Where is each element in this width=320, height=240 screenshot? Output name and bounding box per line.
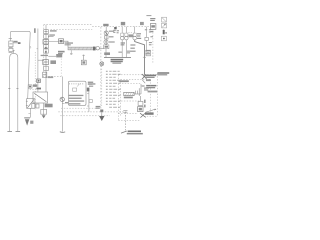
connector above lamp L1: [121, 33, 124, 36]
dashed bottom edge of center module row2: [60, 115, 110, 117]
label under resistor R1: [124, 97, 133, 99]
switch S2 on center chain: [43, 60, 49, 65]
legend icon 3 (dark glyph): [163, 30, 167, 35]
check mark inside module top: [77, 84, 80, 87]
label for ground G101: [30, 121, 33, 124]
diode D1 on left branch: [37, 79, 41, 83]
splice ring C7 on ground run: [60, 97, 64, 101]
bus bar (hatched): [68, 47, 96, 51]
label under lamp L3: [149, 42, 152, 45]
dashed partition near bottom right: [118, 113, 138, 115]
lamp L3 chain wire: [146, 27, 148, 38]
wire fusible link B1 to bus bar: [64, 41, 69, 47]
label for circuit breaker CB1: [109, 31, 114, 32]
lamp L2 chain wire: [134, 27, 136, 33]
corner label box of dashed module: [150, 24, 156, 30]
dashed box A inner top edge: [51, 28, 93, 30]
right module outer dashed top: [118, 74, 157, 76]
dashed box A left edge: [43, 25, 45, 77]
dashed line under resistor: [118, 100, 140, 102]
legend icon 2 (box with diagonal and dot): [162, 23, 167, 28]
label glyph at left branch top: [34, 28, 36, 33]
connector C4 on center chain: [44, 66, 49, 70]
ground wire dashed right: [124, 112, 126, 130]
tap below bus bar: [70, 50, 73, 54]
splice ring S202 on feed chain: [104, 40, 108, 44]
label inside partition rows: [119, 80, 129, 82]
label block inside right module: [144, 88, 149, 91]
label above dashed edge right lamp: [140, 22, 144, 25]
wire bar cap to connector block: [99, 47, 103, 49]
relay K1 on center chain: [43, 40, 49, 44]
terminal feet of loop: [7, 130, 20, 132]
antenna stub component: [81, 55, 86, 65]
junction X marks at heavy wire end: [142, 74, 147, 83]
label above bus bar: [65, 42, 73, 45]
connector ticks on ground wire: [123, 111, 127, 113]
right module inner dashed top: [121, 78, 151, 80]
fuse F2 on center chain: [44, 30, 49, 34]
dashed wire below connector ring: [101, 66, 103, 106]
label above connector ring C200: [103, 24, 108, 26]
connector C100 below fuse: [9, 48, 13, 53]
legend label 4: [150, 36, 153, 37]
wire below lamp L1: [121, 40, 123, 57]
fusible link box B1: [59, 39, 64, 44]
connector C5 on center chain: [43, 72, 47, 77]
dashed module right edge: [156, 73, 158, 116]
dashed box A bottom edge: [43, 75, 62, 77]
small box inside module: [73, 88, 77, 91]
wire center chain: [45, 25, 47, 92]
right module inner dashed right edge: [150, 79, 152, 113]
connector C402 on right wire: [138, 107, 143, 112]
connector tag on dashed top edge: [114, 27, 117, 29]
ground G101: [24, 118, 30, 126]
label rows left of lamp L3 wire: [145, 29, 152, 32]
dashed enclosure around switch S1: [30, 52, 36, 110]
relay box on branch wire: [28, 85, 32, 88]
label under connector block: [104, 52, 110, 55]
dashed box top edge right half: [92, 26, 150, 28]
tiny labels at left of right module: [144, 100, 146, 108]
ground run foot: [60, 131, 65, 134]
connector marks above resistor lead: [135, 88, 139, 96]
nub on branch wire: [29, 46, 32, 48]
dotted header inside module box: [69, 83, 84, 85]
label block right lower: [146, 85, 156, 88]
ground arrow below connector C6: [42, 115, 46, 118]
labels above terminal bar right: [118, 51, 130, 54]
right module inner dashed left edge: [120, 79, 122, 116]
junction blob S300: [100, 110, 103, 113]
label above dashed edge left lamp: [121, 22, 125, 25]
dashed partition bottom right lower: [118, 119, 140, 121]
dashed box right edge upper-right: [152, 29, 154, 63]
wire top-left hat from fuse feed to switch branch: [10, 31, 30, 98]
label arrow for fuse F1: [13, 41, 21, 44]
wire relay K1 to fusible link box: [49, 41, 59, 43]
label row right bottom: [148, 91, 158, 93]
wire below switch S3: [43, 103, 45, 115]
tick on ground run: [62, 103, 64, 105]
label arrow right of switch S3: [45, 104, 53, 108]
connector above lamp L2: [133, 33, 136, 36]
small label right: [146, 79, 151, 81]
X marks lower right: [140, 113, 146, 118]
label block right mid: [145, 75, 156, 78]
right module outer dashed left edge: [117, 75, 119, 121]
arrow into right module: [145, 109, 156, 115]
tick on heavy wire: [143, 56, 146, 58]
right module innermost dashed top: [122, 82, 140, 84]
connector pair below switch S3: [32, 104, 39, 109]
legend label 3: [150, 31, 153, 32]
wire lamp L3 chain down: [146, 40, 148, 50]
splice ring at bar end: [96, 47, 99, 50]
wire below lamp L1b: [125, 40, 127, 57]
connector box on ground branch x89: [89, 100, 92, 103]
wire left solid branch: [37, 29, 44, 92]
junction bar on left branch: [36, 88, 41, 90]
legend icon 1 (box with diagonal): [162, 17, 167, 22]
terminal bar under lamp L1: [104, 57, 131, 59]
connector on lamp L3 chain: [145, 37, 148, 40]
dashed box A top edge: [44, 24, 93, 26]
dashed segment to right module: [145, 73, 158, 75]
label left of diode D1: [33, 84, 37, 86]
label rows beside heavy wire: [130, 44, 150, 54]
connector C6 below switch S3: [41, 109, 47, 114]
wire connector block down: [105, 49, 107, 58]
switch box S3 with diagonal: [33, 92, 48, 103]
label right of dashed vertical top: [157, 72, 169, 75]
wire to ground triangle: [101, 112, 103, 116]
circuit breaker CB1 on feed chain: [104, 31, 108, 35]
connector ring C200: [100, 62, 104, 66]
pin row list of connector: [106, 71, 121, 108]
label for switch S2: [50, 60, 56, 64]
text rows inside module box: [69, 95, 84, 105]
resistor R1: [124, 92, 134, 95]
connector C401 on right wire: [138, 101, 143, 105]
dashed partition under module box: [61, 107, 96, 109]
connector above lamp L1b: [125, 33, 128, 36]
lamp L1b bulb: [125, 36, 129, 40]
label for ground G302: [127, 131, 143, 135]
wire right module vertical: [139, 96, 141, 101]
label rows right of lamp L2: [137, 33, 141, 39]
wire module left ground run: [61, 77, 63, 132]
lamp L1 chain wire: [121, 27, 123, 33]
label right of junction wire: [142, 85, 145, 86]
label rows on lamp L1 wire: [121, 42, 125, 45]
label right of module box top: [88, 82, 93, 85]
legend icon 4 (box with dot): [161, 36, 166, 41]
wire switch S1 to ground: [28, 108, 30, 117]
connector C3 on center chain: [44, 49, 49, 53]
switch S1 box: [26, 99, 35, 109]
label for connector C201: [109, 36, 114, 37]
label rows left of lamp L1: [113, 30, 119, 34]
fuse F1: [9, 39, 13, 47]
loop element (glass fuse loop) left tall: [10, 50, 18, 131]
dashed inner right edge: [60, 53, 62, 76]
label arrow for connector C2: [49, 34, 55, 36]
ground triangle G200: [99, 116, 104, 121]
label above ground splice: [96, 106, 101, 109]
connector block at bar level: [104, 45, 109, 49]
connector C201 on feed chain: [105, 36, 108, 39]
ground foot G302: [121, 131, 127, 133]
label for splice S202: [109, 41, 115, 42]
legend label 1: [146, 15, 155, 21]
label below dashed jumper: [128, 34, 133, 37]
module box M (solid): [68, 81, 86, 105]
connector C2 on center chain: [44, 35, 49, 39]
label below-left of bus bar: [58, 51, 65, 54]
heavy wire below lamp L2: [135, 40, 145, 75]
splice S201 on center chain: [44, 45, 49, 49]
dashed module bottom edge: [144, 115, 158, 117]
connector C301 on lamp L3 chain: [146, 50, 150, 56]
label left of pin rows: [88, 83, 95, 86]
ticks on loop legs: [8, 87, 18, 89]
label right of splice C7: [65, 102, 69, 103]
dashed jumper between lamps: [128, 32, 132, 34]
dashed bottom edge of center module row1: [58, 111, 126, 113]
lamp L1 bulb: [120, 36, 124, 40]
label above dashed bottom edge: [48, 76, 54, 78]
lead from resistor R1: [134, 93, 141, 95]
label row mid chain: [41, 54, 63, 57]
wire feed chain top: [105, 27, 107, 45]
wire ground branch x89: [87, 91, 89, 112]
connector stub under module label: [87, 88, 90, 92]
wire X junction to resistor connector: [140, 84, 142, 94]
dashed connector face line: [100, 27, 102, 113]
lamp L2 bulb: [133, 36, 137, 40]
label for fuse F2: [50, 30, 57, 31]
lamp L1b chain wire: [125, 27, 127, 33]
label under terminal bar: [111, 59, 124, 64]
